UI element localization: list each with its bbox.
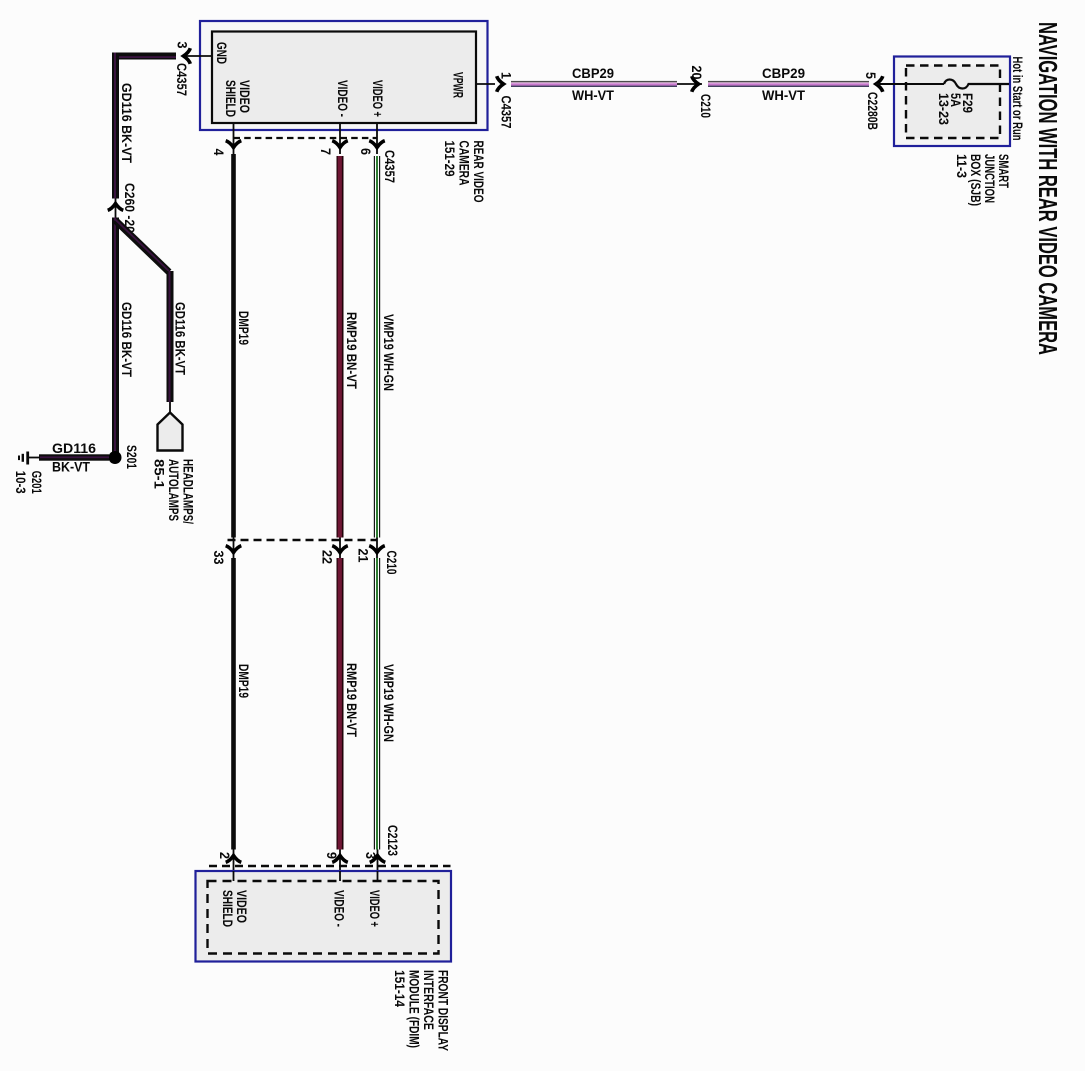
pin 7 lead — [339, 123, 341, 154]
svg-text:21: 21 — [356, 549, 372, 563]
wire GD116 BK-VT vertical upper — [112, 53, 119, 199]
wire DMP19 upper segment — [231, 154, 236, 538]
connector C260-20 gap — [115, 199, 117, 218]
C210 pin 22 lead and arrow — [339, 538, 341, 559]
wire GND lead from camera — [184, 55, 212, 57]
module name SMART JUNCTION BOX (SJB) 11-3 — [954, 154, 1012, 206]
wire GD116 BK-VT thick horizontal — [112, 53, 176, 60]
svg-text:DMP19: DMP19 — [236, 664, 252, 698]
C210 pin 33 lead and arrow — [233, 538, 235, 559]
svg-text:13-23: 13-23 — [936, 93, 952, 125]
svg-text:BK-VT: BK-VT — [52, 459, 90, 475]
svg-text:NAVIGATION WITH REAR VIDEO CAM: NAVIGATION WITH REAR VIDEO CAMERA — [1033, 22, 1063, 355]
module name REAR VIDEO CAMERA 151-29 — [442, 141, 487, 203]
svg-text:RMP19 BN-VT: RMP19 BN-VT — [344, 663, 360, 737]
svg-text:CBP29: CBP29 — [762, 65, 805, 81]
svg-text:C2280B: C2280B — [865, 92, 881, 130]
FDIM pin 3 lead and arrow up — [377, 850, 379, 882]
svg-text:SHIELD: SHIELD — [223, 80, 239, 117]
svg-text:S201: S201 — [124, 445, 140, 469]
svg-text:C2123: C2123 — [385, 825, 401, 856]
pin 6 lead — [376, 123, 378, 154]
FDIM pin 9 lead and arrow up — [339, 850, 341, 882]
svg-text:6: 6 — [358, 148, 374, 155]
svg-text:VPWR: VPWR — [451, 72, 467, 98]
wire GD116 BK-VT horizontal to ground — [39, 454, 109, 460]
svg-text:GD116 BK-VT: GD116 BK-VT — [119, 302, 135, 377]
svg-text:C4357: C4357 — [174, 63, 190, 96]
svg-text:RMP19 BN-VT: RMP19 BN-VT — [344, 312, 360, 389]
svg-text:C4357: C4357 — [382, 150, 398, 183]
SJB pin 5 arrow left — [876, 76, 883, 92]
smart junction box — [894, 57, 1010, 147]
svg-text:CBP29: CBP29 — [572, 65, 614, 81]
svg-text:VMP19 WH-GN: VMP19 WH-GN — [381, 314, 397, 391]
svg-text:WH-VT: WH-VT — [762, 87, 805, 103]
svg-text:33: 33 — [211, 551, 227, 565]
svg-text:151-29: 151-29 — [442, 141, 458, 177]
pin 1 arrow right — [497, 76, 504, 92]
svg-text:GD116 BK-VT: GD116 BK-VT — [173, 302, 189, 375]
camera connector C4357 dashed line — [234, 137, 378, 139]
pin 3 arrow at C4357 — [184, 48, 191, 64]
pin 4 lead — [233, 123, 235, 154]
C210 pin 21 lead and arrow — [376, 538, 378, 559]
svg-text:VIDEO -: VIDEO - — [332, 890, 348, 927]
svg-text:3: 3 — [363, 852, 379, 859]
svg-text:22: 22 — [320, 550, 336, 564]
svg-text:10-3: 10-3 — [13, 471, 29, 494]
off-page connector HEADLAMPS/AUTOLAMPS — [158, 413, 183, 451]
pin 6 arrow down — [369, 141, 385, 148]
fuse F29 symbol — [944, 80, 1009, 89]
FDIM module box — [196, 871, 452, 962]
module name FRONT DISPLAY INTERFACE MODULE (FDIM) 151-14 — [392, 970, 452, 1051]
ground label G201 10-3 — [13, 471, 45, 494]
svg-text:7: 7 — [318, 148, 334, 155]
svg-text:4: 4 — [211, 149, 227, 156]
svg-text:GD116 BK-VT: GD116 BK-VT — [119, 83, 135, 163]
svg-text:20: 20 — [689, 66, 705, 80]
lead into SJB — [876, 83, 944, 85]
svg-text:Hot in Start or Run: Hot in Start or Run — [1010, 57, 1025, 141]
connector C2123 dashed line — [209, 865, 451, 867]
svg-text:151-14: 151-14 — [392, 970, 408, 1007]
svg-text:3: 3 — [175, 42, 191, 49]
svg-text:C210: C210 — [384, 551, 400, 575]
C210 arrow right — [692, 76, 699, 92]
wire GD116 BK-VT diagonal branch — [115, 220, 169, 272]
svg-text:DMP19: DMP19 — [236, 311, 252, 345]
svg-text:GND: GND — [214, 42, 230, 64]
wire RMP19 BN-VT upper segment — [337, 156, 344, 538]
svg-text:85-1: 85-1 — [152, 459, 168, 489]
wire GD116 BK-VT vertical lower — [112, 218, 119, 454]
VPWR lead from camera — [476, 83, 495, 85]
C260 arrow up — [108, 204, 124, 211]
svg-text:G201: G201 — [29, 471, 45, 494]
wire DMP19 lower segment — [231, 558, 236, 850]
wire VMP19 WH-GN upper segment — [374, 156, 380, 538]
wire VMP19 WH-GN lower segment — [374, 558, 380, 850]
FDIM pin leads inside box — [233, 871, 235, 881]
splice S201 — [109, 451, 122, 464]
svg-text:2: 2 — [217, 852, 233, 859]
svg-text:C210: C210 — [698, 94, 714, 118]
svg-text:VMP19 WH-GN: VMP19 WH-GN — [381, 664, 397, 742]
FDIM pin 2 lead and arrow up — [233, 850, 235, 882]
svg-text:11-3: 11-3 — [954, 154, 970, 178]
svg-text:SHIELD: SHIELD — [220, 890, 236, 927]
svg-text:VIDEO -: VIDEO - — [335, 80, 351, 117]
wire CBP29 WH-VT segment 1 — [511, 81, 677, 87]
wire vertical to headlamps connector — [167, 271, 174, 402]
C210 inline connector lead — [677, 83, 702, 85]
pin 4 arrow down — [226, 141, 242, 148]
svg-text:WH-VT: WH-VT — [572, 87, 614, 103]
camera pin label VIDEO SHIELD — [223, 80, 253, 117]
FDIM pin label VIDEO SHIELD — [220, 890, 250, 927]
svg-text:C4357: C4357 — [499, 96, 515, 129]
ground symbol G201 — [18, 452, 29, 465]
fuse label F29 5A 13-23 — [936, 93, 976, 125]
svg-text:VIDEO +: VIDEO + — [370, 80, 386, 117]
svg-text:5: 5 — [863, 72, 879, 79]
wire RMP19 BN-VT lower segment — [337, 558, 344, 850]
connector C210 dashed line (middle) — [228, 539, 378, 541]
rear video camera module box — [200, 21, 488, 130]
svg-text:GD116: GD116 — [52, 440, 96, 456]
pin 7 arrow down — [332, 141, 348, 148]
svg-text:1: 1 — [499, 72, 515, 79]
svg-text:VIDEO +: VIDEO + — [367, 890, 383, 927]
label HEADLAMPS/AUTOLAMPS 85-1 — [152, 459, 197, 524]
wire CBP29 WH-VT segment 2 — [708, 81, 869, 87]
svg-text:9: 9 — [324, 852, 340, 859]
